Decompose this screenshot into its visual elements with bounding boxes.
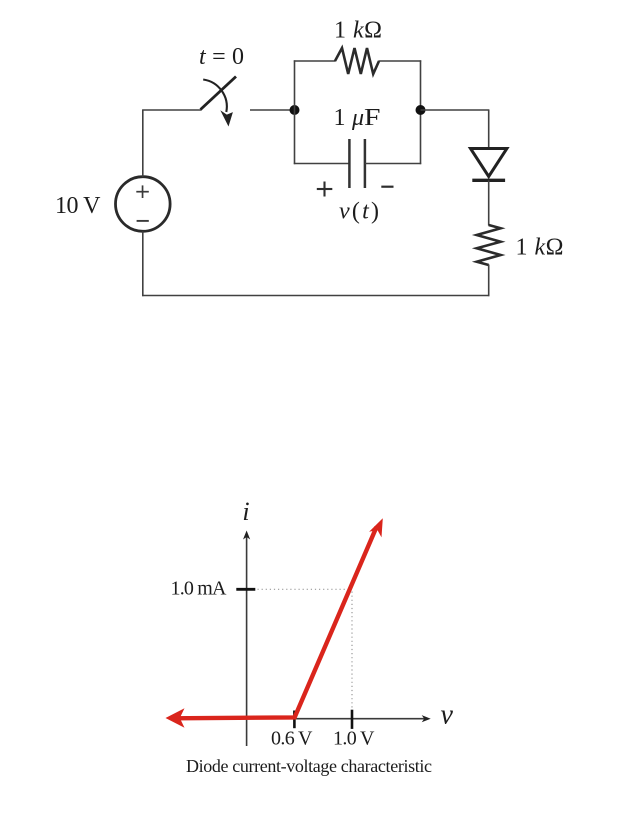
svg-text:i: i [242, 497, 249, 526]
wire top-left horizontal (to switch) [142, 109, 201, 111]
wire diode to resistor R2 [488, 180, 490, 225]
svg-text:v(t): v(t) [339, 199, 379, 225]
dotted guide vertical (1.0 V) [351, 592, 353, 715]
node A junction dot [290, 105, 300, 115]
svg-text:1.0 V: 1.0 V [333, 728, 375, 750]
label + polarity [317, 182, 333, 197]
svg-text:Diode current-voltage characte: Diode current-voltage characteristic [186, 756, 432, 776]
wire parallel-box left vertical [294, 60, 296, 164]
svg-text:1 kΩ: 1 kΩ [516, 235, 564, 261]
tick 0.6 V [293, 711, 296, 729]
tick 1.0 mA [236, 588, 255, 591]
wire switch output to node A [250, 109, 295, 111]
svg-text:1 kΩ: 1 kΩ [334, 18, 382, 44]
wire left vertical top (source to top wire) [142, 110, 144, 177]
wire node B to right branch [421, 109, 490, 111]
tick 1.0 V [351, 710, 354, 729]
i axis [243, 531, 250, 747]
resistor R1 1 kOhm top [335, 48, 379, 74]
capacitor C1 1 uF [349, 139, 365, 188]
wire top lead right of R1 [379, 60, 422, 62]
diode D1 [471, 149, 507, 181]
wire left vertical bottom (source to bottom wire) [142, 231, 144, 296]
switch S1 (closes at t=0) [201, 77, 237, 127]
voltage source VS 10 V [116, 177, 171, 232]
wire bottom horizontal return [142, 295, 489, 297]
svg-text:1.0 mA: 1.0 mA [171, 578, 228, 600]
diode characteristic curve (red) [166, 518, 383, 728]
svg-text:10 V: 10 V [55, 193, 101, 219]
v axis [215, 715, 431, 722]
svg-text:v: v [441, 700, 454, 731]
svg-text:t = 0: t = 0 [199, 44, 244, 70]
resistor R2 1 kOhm right [477, 225, 501, 265]
label minus polarity [381, 186, 393, 188]
dotted guide horizontal (1.0 mA level) [258, 588, 351, 590]
wire bottom of box left of capacitor [294, 163, 350, 165]
wire parallel-box right vertical [420, 60, 422, 164]
node B junction dot [416, 105, 426, 115]
svg-text:1μF: 1μF [334, 105, 381, 131]
wire bottom of box right of capacitor [365, 163, 421, 165]
svg-text:0.6 V: 0.6 V [271, 728, 313, 750]
wire right branch top vertical [488, 110, 490, 150]
wire resistor R2 to bottom wire [488, 265, 490, 297]
wire top lead left of R1 [294, 60, 336, 62]
